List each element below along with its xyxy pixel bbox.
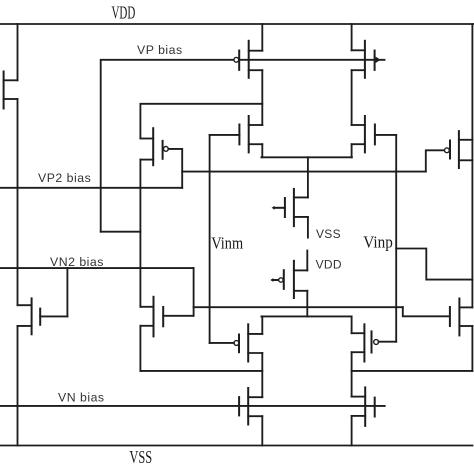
- transistor M11 (input PMOS Vinp, mirrored): [352, 324, 397, 361]
- wire M13 source to VSS rail: [17, 326, 19, 446]
- wire M16 source to VSS: [351, 416, 353, 446]
- node line between cascode sources: [261, 156, 352, 158]
- VP bias wire (corner, runs right to M3 gate): [101, 60, 385, 232]
- wire VP2 right up to M7 gate: [426, 150, 445, 171]
- transistor M13 (bottom left NMOS): [18, 298, 68, 334]
- wire node A to M6 drain: [140, 104, 262, 139]
- wire M1 source down left rail to M13 drain: [17, 99, 19, 305]
- right tail node line: [352, 370, 473, 372]
- wire M11 drain up: [351, 316, 353, 333]
- Vinp input wire: [395, 135, 397, 342]
- svg-text:VSS: VSS: [316, 227, 341, 241]
- wire M4 source to node line: [261, 144, 263, 157]
- wire VDD to M3 drain: [351, 24, 353, 50]
- svg-text:VP bias: VP bias: [137, 43, 183, 57]
- wire M12 source down to left node: [139, 326, 141, 371]
- VP2 bias wire right: [182, 171, 426, 173]
- wire right edge mid segment: [471, 326, 473, 371]
- svg-text:VSS: VSS: [129, 447, 152, 467]
- transistor M1 (left edge, gate cropped): [4, 72, 18, 109]
- transistor M14 (right edge NMOS): [450, 299, 473, 336]
- wire VN2 down to M12 gate: [193, 268, 195, 316]
- wire M5 source to node line: [351, 144, 353, 157]
- svg-text:VP2 bias: VP2 bias: [38, 171, 91, 185]
- transistor M4 (left cascode): [210, 116, 263, 152]
- transistor M9 (center PMOS, VDD stub): [270, 261, 307, 298]
- transistor M15 (tail NMOS left): [239, 388, 262, 425]
- wire M6 gate to VP2 bias: [168, 149, 182, 188]
- wire Vinp branch to right edge: [396, 249, 472, 280]
- VN bias wire: [0, 405, 385, 407]
- wire M2 source to M4 drain (node A): [261, 70, 263, 125]
- wire M9 source stub to VDD: [306, 251, 308, 271]
- wire M10 drain up: [261, 316, 263, 334]
- mid line (M12 gate node to M14 gate): [194, 306, 403, 308]
- wire node line down to M8 drain: [307, 157, 309, 197]
- wire M10 source down to M15 drain: [261, 353, 263, 397]
- transistor M5 (right cascode, mirrored): [352, 116, 397, 152]
- wire right edge VDD down: [471, 24, 473, 307]
- transistor M3 (top right PMOS, mirrored, arrow gate): [352, 41, 381, 78]
- wire M6 source down to M12 drain: [139, 160, 141, 307]
- wire VDD to M1 drain: [17, 24, 19, 80]
- wire VDD to M2 drain: [261, 24, 263, 51]
- VP bias wire bottom to M6 source line: [101, 231, 141, 233]
- wire M11 source down to M16 drain: [351, 352, 353, 396]
- VSS rail: [0, 445, 473, 447]
- svg-text:VN bias: VN bias: [58, 391, 105, 405]
- transistor M12 (left cascode NMOS): [140, 297, 193, 337]
- transistor M16 (tail NMOS right, mirrored): [352, 387, 375, 426]
- Vinm input wire: [209, 135, 211, 343]
- VDD rail: [0, 23, 474, 25]
- wire M15 source to VSS: [261, 416, 263, 445]
- svg-text:VDD: VDD: [112, 2, 136, 22]
- transistor M6 (left mirror PMOS): [140, 128, 168, 165]
- transistor M10 (input PMOS Vinm): [210, 324, 263, 361]
- svg-text:VN2 bias: VN2 bias: [50, 255, 104, 269]
- wire M3 source to M5 drain: [351, 70, 353, 125]
- VN2 bias wire: [0, 267, 194, 269]
- output link line (M10 drain to M11 drain): [261, 315, 351, 317]
- left tail node line: [140, 370, 262, 372]
- wire M8 source stub to VSS: [307, 217, 309, 238]
- wire M9 drain down to mid line: [306, 291, 308, 317]
- transistor M8 (center NMOS, VSS stub): [272, 189, 308, 226]
- VP2 bias wire left: [0, 187, 182, 189]
- svg-text:VDD: VDD: [316, 257, 342, 271]
- transistor M7 (right edge mirror PMOS): [445, 131, 473, 168]
- svg-text:Vinm: Vinm: [211, 234, 243, 253]
- step down to M14 gate lead: [403, 307, 449, 316]
- svg-text:Vinp: Vinp: [363, 233, 393, 252]
- wire VN2 to M13 gate: [66, 268, 68, 316]
- transistor M2 (top left PMOS): [234, 41, 262, 78]
